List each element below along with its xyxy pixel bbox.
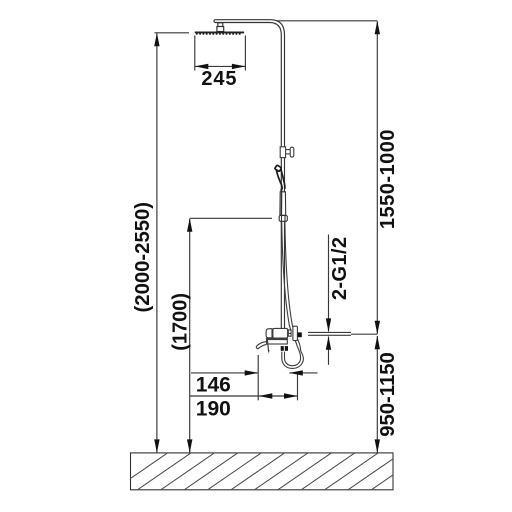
svg-text:2-G1/2: 2-G1/2 <box>329 237 351 301</box>
svg-text:950-1150: 950-1150 <box>377 352 399 437</box>
svg-text:1550-1000: 1550-1000 <box>377 129 399 229</box>
svg-text:245: 245 <box>201 68 237 90</box>
svg-text:190: 190 <box>196 397 231 420</box>
svg-text:146: 146 <box>196 374 231 397</box>
svg-text:(2000-2550): (2000-2550) <box>132 202 154 313</box>
svg-text:(1700): (1700) <box>170 293 192 351</box>
